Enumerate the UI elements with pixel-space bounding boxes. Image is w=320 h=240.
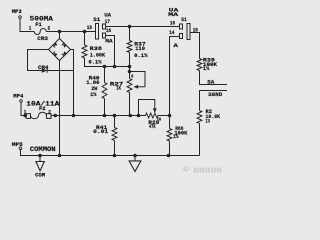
- node junction R27 loop: [128, 70, 132, 74]
- ground (signal): [134, 156, 136, 161]
- node junction bridge bottom on COMMON: [58, 154, 62, 158]
- svg-text:2: 2: [48, 26, 51, 32]
- switch S1B wiper bar pin 15: [187, 24, 190, 40]
- diode CR3 bottom-right: [62, 51, 67, 56]
- node junction R38 top: [83, 30, 87, 34]
- resistor R39: [197, 59, 202, 71]
- potentiometer R29: [137, 114, 141, 118]
- svg-text:MA: MA: [105, 37, 113, 44]
- svg-text:CR3: CR3: [37, 35, 48, 42]
- node junction fuse F2 pin1: [24, 114, 28, 118]
- svg-text:UA: UA: [104, 12, 111, 19]
- svg-text:0.1%: 0.1%: [89, 58, 102, 65]
- resistor R41: [114, 116, 116, 128]
- node junction R37 top: [128, 25, 132, 29]
- svg-text:1.00: 1.00: [86, 79, 100, 86]
- node junction CR4 branch on bus: [72, 114, 76, 118]
- svg-text:CW: CW: [157, 118, 161, 122]
- wire MP4 to fuse F2: [21, 102, 26, 115]
- svg-text:MP3: MP3: [12, 8, 22, 15]
- wire pin15 to R39: [190, 33, 200, 59]
- resistor R2: [197, 111, 202, 124]
- wire CR4 to right branch: [47, 70, 73, 72]
- node junction bus R37/R27: [128, 65, 132, 69]
- wire R38 bottom to bus: [85, 58, 130, 67]
- svg-text:14: 14: [169, 30, 174, 36]
- svg-text:SA: SA: [207, 79, 215, 86]
- svg-text:0.01: 0.01: [93, 128, 108, 135]
- node junction R27 bus: [129, 114, 133, 118]
- node MP5 terminal: [19, 147, 22, 150]
- svg-text:1%: 1%: [90, 92, 97, 98]
- svg-text:MA: MA: [168, 11, 179, 18]
- svg-text:1%: 1%: [203, 65, 210, 72]
- diode CR3 top-right: [62, 43, 67, 48]
- wire MP3 to fuse F1: [20, 18, 34, 31]
- svg-text:110: 110: [135, 45, 145, 52]
- svg-text:47K: 47K: [149, 124, 156, 130]
- svg-text:COM: COM: [35, 173, 45, 179]
- svg-text:16: 16: [106, 28, 111, 34]
- svg-text:F2: F2: [39, 105, 46, 112]
- node junction R40 bus: [103, 114, 107, 118]
- resistor R38: [84, 32, 86, 46]
- node junction R41 bottom: [113, 154, 117, 158]
- node junction bus R40: [103, 65, 107, 69]
- node junction R41 top: [113, 114, 117, 118]
- wire pin14 to net A: [170, 37, 180, 116]
- svg-text:S1: S1: [93, 16, 100, 23]
- wire pin16A down to bus (net MA): [106, 36, 115, 67]
- svg-text:1.00K: 1.00K: [90, 51, 106, 58]
- wire bridge left corner loop: [28, 50, 49, 71]
- svg-text:0.1%: 0.1%: [134, 52, 148, 59]
- wire COMMON bus: [21, 150, 200, 156]
- wire pin17 to S1B pin16 (net UA): [106, 26, 180, 28]
- wire R39 to SA line: [200, 71, 228, 85]
- node junction bridge top: [58, 30, 62, 34]
- wire lower bus 10A line: [51, 115, 146, 117]
- resistor R37: [129, 27, 131, 41]
- wire bridge bottom to COMMON: [59, 61, 61, 156]
- wire bridge right corner down: [71, 50, 74, 116]
- svg-text:18: 18: [87, 25, 92, 31]
- svg-text:SGND: SGND: [208, 91, 223, 98]
- node junction fuse F2 pin2: [54, 114, 58, 118]
- node junction bus MA: [113, 65, 117, 69]
- svg-text:16: 16: [170, 21, 175, 27]
- svg-text:S1: S1: [181, 16, 187, 23]
- node junction chassis ground: [133, 154, 137, 158]
- svg-text:1%: 1%: [173, 134, 179, 140]
- node junction net A / R66: [168, 114, 172, 118]
- svg-text:1: 1: [29, 25, 32, 31]
- diode CR3 top-left: [53, 42, 58, 47]
- wire fuse F1 to switch S1: [46, 31, 95, 33]
- svg-text:1K: 1K: [116, 85, 121, 91]
- svg-text:A: A: [173, 42, 178, 49]
- watermark logo: [183, 166, 222, 173]
- svg-text:1%: 1%: [206, 118, 211, 125]
- node MP3 terminal: [19, 16, 22, 19]
- wire bridge top stem: [59, 32, 61, 39]
- wire SGND line: [200, 91, 228, 111]
- svg-text:500MA: 500MA: [30, 15, 54, 22]
- ground COM: [39, 156, 41, 162]
- svg-text:MP5: MP5: [12, 141, 23, 148]
- resistor R66: [169, 116, 171, 129]
- fuse F1: [34, 29, 46, 35]
- svg-text:MP4: MP4: [13, 93, 23, 100]
- svg-text:COMMON: COMMON: [30, 146, 56, 153]
- resistor R40: [104, 67, 106, 83]
- wire R2 bottom to COMMON bus: [199, 124, 201, 156]
- diode CR3 bottom-left: [53, 51, 58, 56]
- node junction COM ground: [38, 154, 42, 158]
- potentiometer R27: [129, 67, 131, 72]
- node MP4 terminal: [20, 100, 23, 103]
- node junction R66 bottom: [167, 154, 171, 158]
